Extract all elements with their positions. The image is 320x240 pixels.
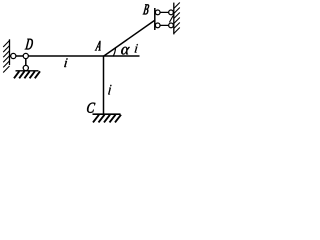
ground hatching under D — [14, 71, 40, 78]
hatch stroke crossing between B links — [169, 15, 173, 23]
label A — [95, 41, 100, 50]
wall hatching (left wall) — [3, 41, 9, 73]
member A-C vertical — [103, 56, 105, 115]
ground line under D support — [16, 70, 39, 72]
label alpha — [121, 47, 130, 55]
member A-B diagonal — [104, 20, 155, 56]
label D — [25, 39, 33, 50]
pin wall lower — [169, 23, 174, 28]
label C — [87, 103, 95, 113]
label i (right of A) — [135, 44, 138, 52]
lower link at B — [155, 24, 174, 26]
upper link at B — [155, 11, 174, 13]
angle arc at A — [113, 48, 116, 57]
label B — [143, 4, 149, 14]
pin bar lower — [155, 23, 160, 28]
link: pin D down to ground pin — [25, 56, 27, 70]
ground hatching at C — [93, 115, 121, 123]
ground line at C — [93, 113, 121, 115]
wall at D (left) — [9, 39, 11, 65]
wall hatching (right wall) — [174, 3, 180, 34]
pin D — [23, 53, 28, 58]
label i (beam DA) — [64, 58, 67, 67]
label i (member AC) — [108, 85, 111, 95]
bar at B — [154, 8, 156, 30]
wall at B (right) — [173, 3, 175, 35]
pin wall upper — [169, 10, 174, 15]
pin on wall at D — [11, 53, 16, 58]
pin on ground below D — [23, 65, 28, 70]
wire: beam D-A plus stub right of A — [10, 55, 140, 57]
pin bar upper — [155, 10, 160, 15]
